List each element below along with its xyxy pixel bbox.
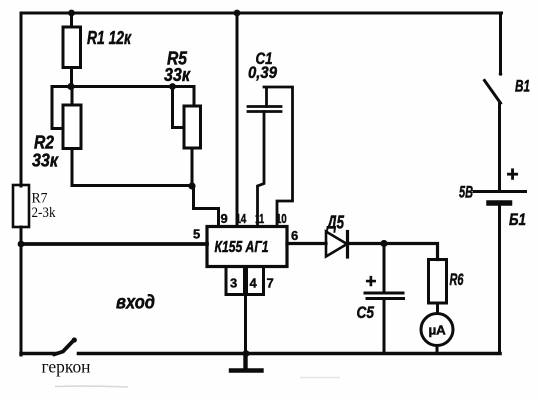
svg-text:геркон: геркон: [42, 357, 91, 377]
node junction diode out: [380, 240, 387, 247]
wire pin 14 feed: [236, 13, 239, 227]
node switch tip: [72, 337, 77, 342]
wire C1 bottom to pin 11: [258, 112, 265, 227]
wire R1 top: [70, 13, 73, 27]
node junction B: [188, 182, 195, 189]
svg-text:33к: 33к: [164, 65, 191, 85]
svg-text:+: +: [365, 272, 376, 293]
wire pin 9 feed: [194, 186, 219, 227]
wire faint scan mark bottom left: [55, 385, 128, 388]
battery Б1 plate long: [474, 190, 526, 193]
svg-text:10: 10: [276, 211, 287, 226]
node junction ground: [243, 350, 250, 357]
svg-text:11: 11: [255, 211, 264, 226]
switch reed (геркон) blade: [54, 340, 74, 355]
resistor R1: [63, 27, 81, 68]
svg-text:Д5: Д5: [326, 213, 345, 233]
wire diode to R6: [348, 244, 438, 260]
wire R1 bottom: [70, 68, 73, 87]
svg-text:4: 4: [250, 276, 258, 291]
resistor R7: [13, 185, 29, 227]
wire right rail upper: [499, 13, 502, 74]
svg-text:R6: R6: [450, 270, 464, 289]
svg-text:С5: С5: [357, 303, 375, 322]
wire node B horizontal: [72, 184, 192, 187]
svg-text:7: 7: [267, 276, 274, 291]
wire right rail mid: [498, 104, 501, 190]
wire node A horizontal: [71, 85, 194, 88]
resistor R5: [184, 106, 201, 148]
svg-text:вход: вход: [116, 293, 155, 314]
svg-text:µА: µА: [429, 323, 447, 338]
node junction input: [18, 241, 25, 248]
resistor R6: [429, 260, 447, 304]
meter PA1 circle: [421, 314, 453, 346]
wire top rail: [21, 12, 502, 15]
node junction A: [67, 83, 74, 90]
wire R5 bottom: [191, 148, 194, 186]
svg-text:Б1: Б1: [509, 210, 526, 229]
svg-text:5В: 5В: [459, 183, 473, 202]
wire R2 left bracket: [52, 87, 71, 129]
wire right rail lower: [498, 206, 501, 354]
wire left rail upper: [20, 13, 23, 186]
pin box 3: [226, 267, 245, 295]
diode Д5: [326, 232, 347, 257]
node junction R5 tap: [169, 83, 176, 90]
wire C5 top: [383, 244, 386, 292]
wire C1 top loop: [264, 87, 293, 227]
wire ground feed: [244, 295, 247, 354]
resistor R2: [63, 105, 81, 149]
svg-text:В1: В1: [515, 77, 530, 96]
wire input (pin 5): [21, 242, 207, 246]
pin box 4: [247, 267, 264, 295]
wire faint scan mark bottom right: [300, 377, 340, 379]
wire meter to bottom rail: [436, 346, 439, 354]
wire R5 top: [193, 87, 196, 107]
battery Б1 plate short: [489, 200, 510, 206]
node junction R1 top: [68, 10, 75, 17]
wire pin 6 to diode: [287, 242, 326, 245]
wire left rail lower: [20, 227, 23, 355]
svg-text:R1 12к: R1 12к: [87, 28, 132, 48]
capacitor C1: [248, 107, 281, 112]
svg-text:6: 6: [291, 228, 298, 243]
wire bottom rail left: [21, 352, 55, 356]
wire R6 to meter: [436, 303, 439, 314]
svg-text:0,39: 0,39: [248, 63, 277, 82]
svg-text:33к: 33к: [32, 151, 59, 171]
wire bottom rail right: [79, 352, 501, 356]
svg-text:R2: R2: [34, 133, 54, 153]
ground: [231, 355, 262, 371]
op-amp U1 К155 АГ1 box: [207, 227, 287, 267]
node Вг top contact: [499, 72, 503, 76]
svg-text:5: 5: [193, 227, 200, 242]
wire R5 left bracket: [173, 87, 185, 128]
svg-text:3: 3: [230, 276, 237, 291]
svg-text:2-3k: 2-3k: [32, 205, 56, 221]
svg-text:+: +: [506, 163, 518, 186]
capacitor C5: [365, 293, 404, 299]
svg-text:К155 АГ1: К155 АГ1: [215, 239, 269, 256]
switch Вг blade: [485, 81, 501, 104]
svg-text:9: 9: [221, 211, 228, 226]
wire R2 bottom: [71, 149, 74, 186]
wire R2 top: [71, 87, 74, 106]
svg-text:14: 14: [236, 211, 247, 226]
wire C5 bottom: [383, 300, 386, 354]
node junction pin14 top: [234, 10, 241, 17]
